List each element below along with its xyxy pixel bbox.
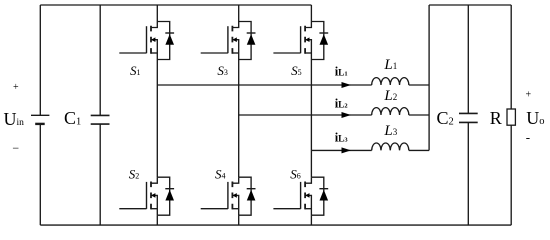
- svg-text:S1: S1: [130, 63, 141, 78]
- wire: phase line 1: [157, 84, 371, 86]
- battery source Uin: long positive plate: [31, 114, 49, 116]
- svg-text:iL1: iL1: [335, 65, 348, 79]
- wire: L2 to output bus: [409, 114, 429, 116]
- svg-text:S4: S4: [215, 167, 226, 182]
- svg-text:iL2: iL2: [335, 97, 348, 111]
- svg-text:+: +: [13, 82, 19, 93]
- current arrow iL3: [342, 147, 352, 153]
- svg-text:S2: S2: [129, 167, 140, 182]
- svg-text:S3: S3: [217, 63, 228, 78]
- wire: L1 to output bus: [409, 84, 429, 86]
- wire: phase line 3: [311, 149, 371, 151]
- transistor S4 (with body diode): [201, 177, 256, 215]
- wire: left rail upper (to battery +): [39, 5, 41, 115]
- wire: C2 branch upper: [467, 5, 469, 113]
- wire: bottom rail: [40, 224, 511, 226]
- svg-text:−: −: [12, 141, 19, 155]
- wire: R branch upper: [510, 5, 512, 109]
- wire: left rail lower (from battery -): [39, 124, 41, 225]
- wire: C1 branch upper: [99, 5, 101, 115]
- inductor L2: [372, 108, 409, 115]
- svg-text:C1: C1: [64, 108, 81, 128]
- wire: C2 branch lower: [467, 122, 469, 225]
- capacitor C1 plates: [91, 115, 110, 124]
- wire: leg2 drain drop: [238, 5, 240, 22]
- svg-text:L2: L2: [383, 88, 397, 104]
- svg-text:Uin: Uin: [4, 109, 25, 129]
- transistor S3 (with body diode): [201, 22, 256, 60]
- transistor S2 (with body diode): [119, 177, 174, 215]
- wire: leg1 drain drop: [156, 5, 158, 22]
- wire: leg3 drain drop: [310, 5, 312, 22]
- wire: leg2 bottom (S4 source to bottom rail): [238, 215, 240, 225]
- current arrow iL2: [342, 112, 352, 118]
- wire: leg2 middle (S3 source to phase node 2): [238, 60, 240, 116]
- wire: output top rail: [429, 4, 511, 6]
- wire: leg1 bottom (S2 source to bottom rail): [156, 215, 158, 225]
- wire: C1 branch lower: [99, 124, 101, 225]
- wire: output bus vertical: [428, 5, 430, 150]
- wire: L3 to output bus: [409, 149, 429, 151]
- wire: leg1 phase node to S2 drain: [156, 85, 158, 177]
- wire: leg3 bottom (S6 source to bottom rail): [310, 215, 312, 225]
- svg-text:Uo: Uo: [526, 108, 544, 128]
- svg-text:L3: L3: [383, 123, 397, 139]
- svg-text:+: +: [526, 90, 532, 101]
- svg-text:S6: S6: [290, 167, 301, 182]
- transistor S6 (with body diode): [273, 177, 328, 215]
- svg-text:R: R: [490, 108, 502, 128]
- svg-text:L1: L1: [383, 57, 397, 73]
- transistor S5 (with body diode): [273, 22, 328, 60]
- svg-text:-: -: [526, 130, 530, 145]
- inductor L1: [372, 78, 409, 85]
- svg-text:iL3: iL3: [335, 131, 349, 145]
- wire: phase line 2: [239, 114, 372, 116]
- wire: leg2 phase node to S4 drain: [238, 115, 240, 177]
- wire: top rail of bridge: [40, 4, 311, 6]
- svg-text:S5: S5: [291, 63, 302, 78]
- wire: leg3 phase node to S6 drain: [310, 150, 312, 177]
- wire: leg3 middle (S5 source to phase node 3): [310, 60, 312, 151]
- svg-text:C2: C2: [437, 108, 454, 128]
- wire: R branch lower: [510, 125, 512, 225]
- inductor L3: [372, 143, 409, 150]
- resistor R body: [507, 109, 515, 125]
- transistor S1 (with body diode): [119, 22, 174, 60]
- wire: leg1 middle (S1 source to phase node 1): [156, 60, 158, 86]
- capacitor C2 plates: [459, 113, 478, 122]
- battery source Uin: short negative plate: [35, 123, 45, 125]
- current arrow iL1: [342, 82, 352, 88]
